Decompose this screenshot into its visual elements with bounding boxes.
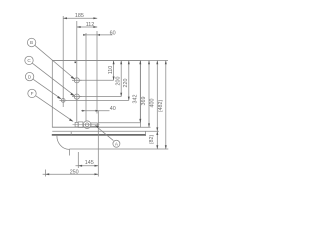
- svg-text:(482): (482): [158, 100, 164, 113]
- arrow 250 right: [95, 173, 99, 175]
- svg-text:110: 110: [108, 66, 114, 75]
- arrowhead leader D: [57, 96, 62, 99]
- svg-text:342: 342: [132, 95, 138, 104]
- arrowhead leader A: [95, 125, 99, 128]
- extension line col 185: [62, 16, 64, 107]
- ext hole3 right: [67, 99, 129, 101]
- leader B: [35, 45, 74, 78]
- ext bottom 145 left: [77, 152, 79, 168]
- skid right edge: [145, 131, 147, 136]
- leader C: [32, 63, 74, 95]
- arrow 40 left: [82, 110, 85, 112]
- arrow 185 right: [93, 17, 97, 19]
- svg-text:(82): (82): [149, 135, 155, 145]
- assembly box1: [78, 122, 83, 128]
- dim v 342: [139, 61, 141, 123]
- cable arc: [57, 136, 69, 150]
- dim line 145: [76, 165, 99, 167]
- assembly inner circle: [85, 123, 89, 127]
- arrow 400 bottom: [156, 127, 158, 131]
- svg-text:C: C: [27, 58, 31, 63]
- extension line col 60 right: [96, 31, 98, 114]
- svg-text:B: B: [30, 40, 33, 45]
- svg-text:F: F: [31, 91, 34, 96]
- dim v 482: [165, 61, 167, 150]
- arrow 200 top: [120, 61, 122, 65]
- arrowhead leader F: [69, 119, 74, 122]
- ext bottom left 250: [44, 170, 46, 177]
- junction dot: [75, 62, 77, 64]
- arrow 110 bottom: [113, 77, 115, 81]
- svg-text:60: 60: [110, 31, 116, 37]
- svg-text:185: 185: [75, 13, 84, 19]
- floor line: [69, 148, 168, 150]
- skid top line: [52, 130, 159, 132]
- dim v 82: [156, 131, 158, 149]
- dim line 185: [63, 17, 97, 19]
- extension line col 112: [76, 21, 78, 122]
- arrow 400 top: [156, 61, 158, 65]
- arrow 82 bottom: [156, 145, 158, 149]
- leader A: [96, 126, 114, 141]
- arrow 60 left: [83, 34, 86, 36]
- ext hole1 right: [80, 79, 114, 81]
- extension line col 40 right / bottom dims right: [97, 111, 99, 177]
- svg-text:145: 145: [85, 160, 94, 166]
- arrow 112 left: [77, 26, 81, 28]
- leader D: [33, 79, 60, 98]
- arrow 112 right: [93, 26, 97, 28]
- balloon B: [27, 38, 35, 46]
- svg-text:40: 40: [110, 106, 116, 112]
- arrow 40 right: [96, 110, 99, 112]
- arrow 250 left: [45, 173, 49, 175]
- arrow 60 right: [97, 34, 100, 36]
- arrow 369 bottom: [148, 123, 150, 127]
- dim v 369: [148, 61, 150, 128]
- arrow 342 top: [139, 61, 141, 65]
- dim line 40: [81, 110, 110, 112]
- skid bottom line: [52, 134, 146, 136]
- dim line 112: [77, 26, 97, 28]
- assembly flange: [91, 123, 97, 126]
- balloon F: [28, 89, 36, 97]
- arrow 145 right: [95, 165, 99, 167]
- arrow 200 bottom: [120, 93, 122, 97]
- balloon C: [25, 56, 33, 64]
- assembly circle: [83, 121, 91, 129]
- hole2 crosshair: [74, 94, 79, 99]
- arrowhead leader B: [71, 76, 76, 79]
- assembly centerline: [73, 124, 100, 126]
- svg-text:A: A: [115, 142, 119, 147]
- ext 342: [98, 122, 140, 124]
- dim line 250: [43, 173, 99, 175]
- dim v 220: [128, 61, 130, 101]
- arrow 82 top: [156, 131, 158, 135]
- arrow 145 left: [78, 165, 82, 167]
- body bottom line: [52, 126, 150, 128]
- svg-text:112: 112: [86, 22, 95, 28]
- svg-text:400: 400: [150, 99, 156, 108]
- svg-text:369: 369: [141, 97, 147, 106]
- ext hole2 right: [80, 96, 121, 98]
- arrow 369 top: [148, 61, 150, 65]
- machine body outline: [52, 61, 140, 128]
- arrow 110 top: [113, 61, 115, 65]
- arrow 482 top: [165, 61, 167, 65]
- extension line col 60 left: [85, 33, 87, 122]
- dim v 200: [120, 61, 122, 97]
- balloon D: [25, 72, 33, 80]
- svg-text:220: 220: [123, 79, 129, 88]
- arrow 185 left: [63, 17, 67, 19]
- hole1 crosshair: [74, 78, 79, 83]
- dim v 110: [113, 61, 115, 81]
- hole3 crosshair: [61, 99, 65, 103]
- arrowhead leader C: [70, 93, 75, 96]
- arrow 342 bottom: [139, 119, 141, 123]
- arrow 482 bottom: [165, 145, 167, 149]
- arc end stub: [68, 149, 70, 156]
- leader F: [36, 96, 73, 121]
- dim line 60: [84, 34, 113, 36]
- skid left tick: [70, 132, 72, 135]
- assembly box2: [75, 122, 78, 127]
- balloon A: [113, 140, 120, 147]
- svg-text:D: D: [28, 74, 32, 79]
- arrow 220 top: [128, 61, 130, 65]
- svg-text:250: 250: [70, 169, 79, 175]
- top datum line: [52, 60, 168, 62]
- dim v 400: [156, 61, 158, 132]
- arrow 220 bottom: [128, 97, 130, 101]
- svg-text:200: 200: [116, 77, 122, 86]
